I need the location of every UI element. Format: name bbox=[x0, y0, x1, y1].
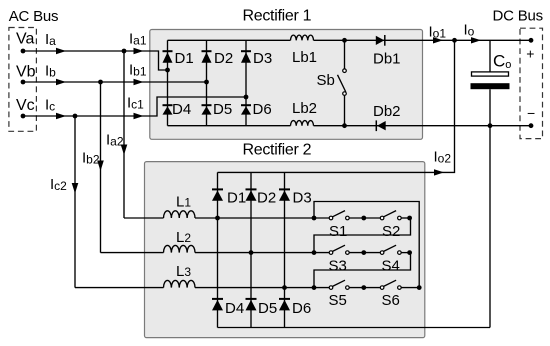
svg-text:AC Bus: AC Bus bbox=[9, 8, 59, 25]
wire rect2 bottom return bbox=[218, 327, 491, 329]
svg-text:Ib2: Ib2 bbox=[82, 150, 100, 167]
junction phase a tap rect2 bbox=[215, 216, 220, 221]
svg-text:Vc: Vc bbox=[16, 97, 35, 114]
rectifier 2 enclosure box bbox=[145, 162, 425, 338]
junction row1 left bbox=[312, 216, 317, 221]
wire rect1 top rail right bbox=[314, 39, 532, 41]
junction cap bottom rail bbox=[488, 123, 493, 128]
wire rect2 row 1 bbox=[195, 217, 329, 219]
junction row2 mid bbox=[361, 250, 366, 255]
switch S2 blade bbox=[384, 211, 397, 217]
diode D3 rect2 bbox=[279, 189, 290, 200]
svg-text:S5: S5 bbox=[329, 292, 347, 309]
wire ring outer path bbox=[314, 202, 419, 288]
wire rect2 row 2 bbox=[195, 252, 329, 254]
arrow Ib1 bbox=[134, 79, 144, 85]
junction c2 bbox=[73, 114, 78, 119]
wire rect2 row 3 right bbox=[401, 287, 419, 289]
junction row3 left bbox=[312, 285, 317, 290]
svg-text:Ia2: Ia2 bbox=[106, 132, 124, 149]
svg-text:Io2: Io2 bbox=[434, 149, 452, 166]
wire rect2 row 2 left bbox=[101, 252, 164, 254]
wire rect2 row 2 mid bbox=[349, 252, 380, 254]
svg-text:Ia1: Ia1 bbox=[129, 31, 147, 48]
inductor L2 bbox=[164, 245, 196, 252]
svg-text:Sb: Sb bbox=[317, 72, 335, 89]
svg-text:D4: D4 bbox=[225, 300, 244, 317]
rectifier 1 enclosure box bbox=[150, 30, 423, 140]
junction row2 right bbox=[407, 250, 412, 255]
junction row1 right bbox=[407, 216, 412, 221]
arrow Ib2 bbox=[97, 161, 104, 172]
node Vc bbox=[21, 114, 26, 119]
wire rect1 top rail bbox=[168, 39, 291, 41]
arrow Ia bbox=[56, 48, 66, 54]
svg-text:S1: S1 bbox=[329, 223, 347, 240]
arrow Ia2 bbox=[121, 145, 128, 156]
svg-text:Io1: Io1 bbox=[429, 23, 447, 40]
junction row2 left bbox=[312, 250, 317, 255]
diode D4 rect1 bbox=[163, 105, 173, 114]
svg-text:D6: D6 bbox=[253, 101, 272, 118]
svg-text:Io: Io bbox=[464, 22, 475, 39]
switch Sb blade bbox=[338, 75, 346, 92]
svg-text:D1: D1 bbox=[175, 50, 194, 67]
wire rect2 row 1 left bbox=[124, 217, 164, 219]
inductor Lb1 bbox=[291, 35, 314, 40]
arrow Io1 bbox=[433, 37, 443, 43]
wire rect2 row 3 bbox=[195, 287, 329, 289]
junction phase b tap rect2 bbox=[249, 250, 254, 255]
svg-text:S2: S2 bbox=[382, 223, 400, 240]
junction row3 mid bbox=[361, 285, 366, 290]
arrow Ib bbox=[56, 79, 66, 85]
svg-text:Va: Va bbox=[16, 31, 34, 48]
switch S3 terminals bbox=[329, 251, 333, 255]
wire capacitor bottom lead down to rect2 return bbox=[489, 89, 491, 327]
svg-text:S3: S3 bbox=[329, 258, 347, 275]
junction a2 bbox=[122, 49, 127, 54]
arrow Io2 bbox=[434, 169, 444, 175]
svg-text:Ib1: Ib1 bbox=[129, 62, 147, 79]
wire step S4 to row 3 bbox=[314, 253, 411, 288]
switch Sb terminal bottom bbox=[343, 92, 347, 96]
svg-text:D2: D2 bbox=[214, 50, 233, 67]
switch S1 terminals bbox=[329, 216, 333, 220]
diode D5 rect2 bbox=[246, 299, 257, 311]
svg-text:Ic1: Ic1 bbox=[127, 95, 144, 112]
junction phase a tap rect1 bbox=[165, 68, 170, 73]
svg-text:S6: S6 bbox=[382, 292, 400, 309]
wire rect1 leg 1 bbox=[167, 40, 169, 125]
diode D2 rect2 bbox=[246, 189, 257, 200]
arrow Io bbox=[471, 37, 481, 43]
junction phase c tap rect2 bbox=[282, 285, 287, 290]
wire rect1 bottom rail right bbox=[314, 125, 532, 127]
junction row3 right bbox=[417, 285, 422, 290]
svg-text:+: + bbox=[526, 46, 534, 62]
wire rect2 row 3 left bbox=[75, 287, 164, 289]
wire phase b bbox=[23, 81, 207, 83]
diode Db1 bbox=[376, 35, 385, 46]
wire rect2 row 1 mid bbox=[349, 217, 380, 219]
svg-text:S4: S4 bbox=[382, 258, 400, 275]
svg-text:D1: D1 bbox=[227, 189, 246, 206]
switch S4 blade bbox=[384, 245, 397, 251]
wire step S2 to row 2 bbox=[314, 218, 411, 253]
junction row1 mid bbox=[361, 216, 366, 221]
node Vb bbox=[21, 80, 26, 85]
arrow Ic bbox=[56, 113, 66, 119]
wire switch Sb upper lead bbox=[344, 40, 346, 68]
svg-text:D5: D5 bbox=[258, 300, 277, 317]
switch S6 blade bbox=[384, 280, 397, 286]
junction phase c tap rect1 bbox=[244, 95, 249, 100]
DC Bus dashed box bbox=[520, 28, 543, 138]
svg-text:Ib: Ib bbox=[45, 63, 56, 80]
capacitor Co top plate bbox=[472, 72, 509, 76]
wire rect2 leg 3 bbox=[284, 172, 286, 327]
svg-text:−: − bbox=[527, 105, 535, 121]
wire phase c bbox=[23, 97, 246, 116]
switch S6 terminals bbox=[380, 286, 384, 290]
svg-text:D2: D2 bbox=[257, 189, 276, 206]
wire switch Sb lower lead bbox=[344, 96, 346, 126]
diode D4 rect2 bbox=[212, 299, 223, 311]
junction phase b tap rect1 bbox=[204, 80, 209, 85]
wire capacitor top lead bbox=[489, 40, 491, 72]
diode D1 rect2 bbox=[212, 189, 223, 200]
svg-text:L2: L2 bbox=[176, 229, 191, 246]
inductor L1 bbox=[164, 211, 196, 218]
switch Sb terminal top bbox=[343, 69, 347, 73]
wire rect1 leg 2 bbox=[206, 40, 208, 125]
svg-text:D3: D3 bbox=[293, 189, 312, 206]
svg-text:Rectifier 2: Rectifier 2 bbox=[243, 142, 312, 159]
wire rect1 leg 3 bbox=[245, 40, 247, 125]
diode D1 rect1 bbox=[163, 51, 173, 63]
wire rect2 row 3 mid bbox=[349, 287, 380, 289]
wire rect2 leg 2 bbox=[250, 172, 252, 327]
inductor L3 bbox=[164, 280, 196, 287]
svg-text:Ic: Ic bbox=[45, 97, 55, 114]
diode D3 rect1 bbox=[241, 51, 251, 63]
arrow Ia1 bbox=[134, 48, 144, 54]
switch S4 terminals bbox=[380, 251, 384, 255]
switch S5 terminals bbox=[329, 286, 333, 290]
diode D2 rect1 bbox=[202, 51, 212, 63]
diode D6 rect1 bbox=[241, 105, 251, 114]
svg-text:D5: D5 bbox=[213, 101, 232, 118]
junction Sb top bbox=[342, 38, 347, 43]
svg-text:Lb2: Lb2 bbox=[292, 100, 317, 117]
arrow Ic2 bbox=[72, 183, 79, 194]
capacitor Co bottom plate bbox=[471, 83, 510, 89]
wire rect1 bottom rail bbox=[168, 125, 291, 127]
wire branch a2 bbox=[123, 51, 125, 218]
svg-text:Ic2: Ic2 bbox=[50, 176, 67, 193]
svg-text:Vb: Vb bbox=[16, 64, 36, 81]
switch S1 blade bbox=[333, 211, 346, 217]
diode D5 rect1 bbox=[202, 105, 212, 114]
node DC plus bbox=[529, 38, 534, 43]
switch S3 blade bbox=[333, 245, 346, 251]
node Va bbox=[21, 49, 26, 54]
svg-text:Ia: Ia bbox=[45, 31, 56, 48]
wire rect2 top rail / Io2 line bbox=[218, 40, 455, 172]
wire rect2 row 2 right bbox=[401, 252, 410, 254]
svg-text:L1: L1 bbox=[176, 194, 191, 211]
svg-text:D6: D6 bbox=[292, 300, 311, 317]
diode D6 rect2 bbox=[279, 299, 290, 311]
AC Bus dashed box bbox=[9, 28, 37, 132]
svg-text:Db1: Db1 bbox=[373, 51, 401, 68]
svg-text:Rectifier 1: Rectifier 1 bbox=[243, 7, 312, 24]
junction Io1-Io2 bbox=[452, 38, 457, 43]
switch S2 terminals bbox=[380, 216, 384, 220]
wire rect2 row 1 right bbox=[401, 217, 410, 219]
svg-text:Lb1: Lb1 bbox=[292, 49, 317, 66]
junction Sb bottom bbox=[342, 123, 347, 128]
svg-text:D4: D4 bbox=[172, 101, 191, 118]
diode Db2 bbox=[376, 120, 385, 131]
inductor Lb2 bbox=[291, 121, 314, 126]
svg-text:DC Bus: DC Bus bbox=[493, 8, 543, 25]
wire phase a bbox=[23, 51, 168, 70]
svg-text:L3: L3 bbox=[176, 263, 191, 280]
wire rect2 leg 1 bbox=[217, 172, 219, 327]
wire branch c2 bbox=[74, 116, 76, 288]
svg-text:D3: D3 bbox=[253, 50, 272, 67]
node DC minus bbox=[529, 123, 534, 128]
switch S5 blade bbox=[333, 280, 346, 286]
junction b2 bbox=[98, 80, 103, 85]
svg-text:Db2: Db2 bbox=[373, 103, 401, 120]
wire branch b2 bbox=[100, 82, 102, 253]
arrow Ic1 bbox=[134, 113, 144, 119]
